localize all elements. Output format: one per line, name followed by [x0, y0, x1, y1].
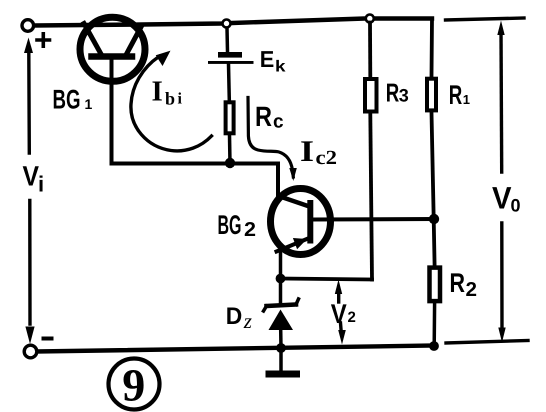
- junction dot R2-bottom rail: [429, 341, 439, 351]
- svg-text:V: V: [492, 180, 512, 215]
- junction dot emitter-R3 link: [276, 274, 286, 284]
- label Ic2: [300, 135, 337, 169]
- svg-text:BG: BG: [53, 85, 81, 115]
- svg-text:9: 9: [122, 359, 145, 410]
- svg-text:3: 3: [399, 86, 409, 106]
- battery Ek: [208, 28, 254, 100]
- wire Rc bottom lead: [228, 135, 232, 163]
- svg-text:i: i: [178, 91, 183, 108]
- label Ib1: [152, 76, 183, 109]
- resistor R2: [430, 268, 441, 302]
- svg-text:b: b: [165, 89, 175, 109]
- label V2: [331, 299, 356, 329]
- resistor Rc: [226, 102, 234, 133]
- wire top rail: [35, 19, 433, 26]
- junction dot zener-bottom rail: [276, 343, 286, 353]
- svg-text:c2: c2: [316, 147, 338, 169]
- label Ek: [260, 46, 286, 76]
- dimension arrow V2: [335, 280, 346, 345]
- figure number 9: [109, 359, 160, 411]
- wire R3 top lead: [368, 23, 372, 78]
- label BG1: [53, 85, 93, 115]
- svg-text:BG: BG: [218, 210, 242, 240]
- label R1: [449, 80, 470, 110]
- svg-text:z: z: [243, 309, 252, 333]
- label R2: [450, 268, 478, 301]
- dimension V0 top bar: [446, 18, 525, 20]
- svg-text:R: R: [386, 78, 400, 108]
- plus label: [37, 34, 50, 46]
- svg-text:I: I: [300, 135, 314, 168]
- label R3: [386, 78, 409, 108]
- svg-text:2: 2: [348, 309, 356, 326]
- dimension arrow Vi: [24, 38, 35, 345]
- junction dot Rc-base rail: [225, 158, 235, 168]
- wire R3 bottom drop: [370, 114, 372, 280]
- svg-text:V: V: [331, 299, 347, 329]
- label Vi: [23, 161, 45, 197]
- svg-text:2: 2: [244, 219, 256, 241]
- resistor R3: [365, 79, 377, 112]
- zener diode Dz: [264, 299, 299, 348]
- svg-text:1: 1: [85, 96, 93, 112]
- minus label: [42, 337, 54, 341]
- svg-text:0: 0: [511, 196, 521, 216]
- node R3 top (open circle): [366, 15, 374, 23]
- node Ek tap (open circle): [223, 20, 231, 28]
- svg-text:2: 2: [466, 279, 478, 301]
- svg-text:R: R: [450, 268, 466, 298]
- dimension arrow V0: [497, 21, 505, 343]
- current arrow Ib1: [131, 52, 212, 151]
- svg-text:R: R: [449, 80, 463, 110]
- transistor BG1: [80, 17, 145, 163]
- label Dz: [226, 303, 252, 333]
- junction dot base-R1: [429, 214, 439, 224]
- wire R1 branch: [432, 19, 435, 266]
- transistor BG2: [271, 189, 435, 255]
- svg-text:1: 1: [463, 92, 470, 107]
- svg-text:c: c: [273, 112, 284, 133]
- wire bottom rail: [37, 346, 435, 352]
- terminal - (input negative): [24, 345, 37, 358]
- wire base rail: [112, 164, 279, 197]
- wire R2 bottom lead: [432, 303, 436, 346]
- wire emitter to R3 link: [281, 279, 373, 280]
- svg-text:D: D: [226, 303, 243, 330]
- svg-text:V: V: [23, 161, 40, 192]
- terminal + (input positive): [22, 20, 34, 32]
- svg-text:E: E: [260, 46, 275, 72]
- ground: [266, 371, 301, 378]
- wire emitter drop: [279, 250, 283, 303]
- wire ground lead: [279, 348, 283, 371]
- dimension V0 bottom bar: [446, 341, 528, 344]
- svg-text:I: I: [152, 76, 163, 108]
- svg-text:R: R: [255, 101, 272, 132]
- svg-text:i: i: [38, 172, 44, 197]
- current leader Ic2: [248, 98, 297, 182]
- label BG2: [218, 210, 257, 241]
- label V0: [492, 180, 521, 215]
- svg-text:k: k: [275, 59, 286, 76]
- label Rc: [255, 101, 284, 133]
- resistor R1: [427, 79, 436, 111]
